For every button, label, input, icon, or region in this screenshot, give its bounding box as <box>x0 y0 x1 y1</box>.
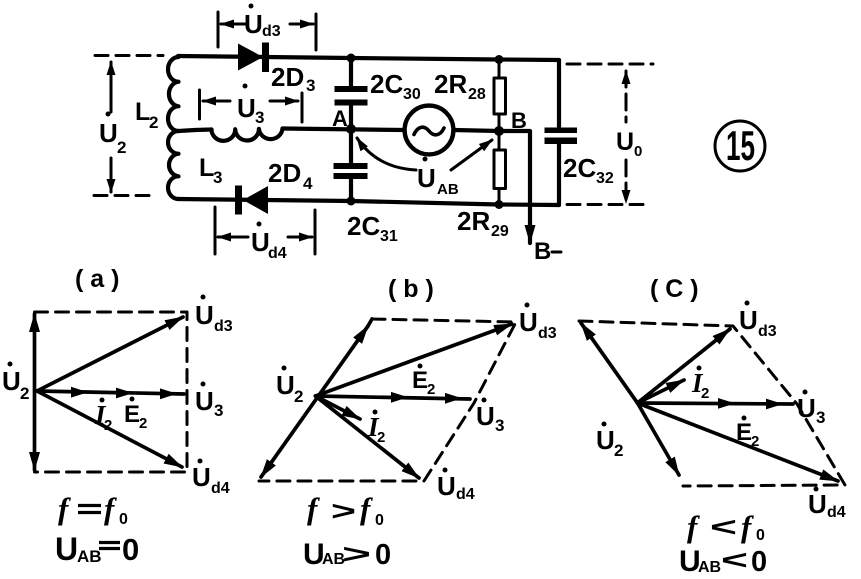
svg-text:AB: AB <box>698 559 721 576</box>
svg-text:2R: 2R <box>457 206 490 236</box>
svg-text:<: < <box>710 512 737 542</box>
capacitor 2C32 <box>545 60 614 205</box>
svg-text:B: B <box>534 238 551 265</box>
svg-text:U: U <box>739 305 758 335</box>
svg-text:AB: AB <box>77 547 102 566</box>
vector U2 (a) <box>2 314 35 470</box>
svg-text:0: 0 <box>119 511 128 528</box>
svg-text:U: U <box>99 118 118 148</box>
condition f&gt;f0 (b) <box>307 491 384 529</box>
condition UAB&lt;0 (c) <box>679 545 767 578</box>
svg-text:( C ): ( C ) <box>650 275 699 303</box>
svg-text:f: f <box>687 509 700 544</box>
svg-text:( b ): ( b ) <box>388 275 434 303</box>
label E2 (c) <box>736 416 759 451</box>
svg-text:E: E <box>124 401 140 428</box>
svg-text:3: 3 <box>816 408 825 427</box>
svg-text:E: E <box>412 367 428 394</box>
svg-text:f: f <box>360 491 373 526</box>
svg-text:d3: d3 <box>538 325 557 342</box>
vector U3 line (c) <box>638 390 826 428</box>
svg-text:32: 32 <box>596 170 614 187</box>
svg-text:2D: 2D <box>271 62 304 92</box>
svg-text:0: 0 <box>634 143 642 160</box>
vector U3 with I2 E2 arrows (a) <box>37 382 223 421</box>
svg-text:d4: d4 <box>456 486 475 503</box>
junction top of 2R28 <box>495 55 504 64</box>
dashed parallelogram (c) <box>579 321 845 486</box>
inductor L2 <box>135 57 179 199</box>
vector I2 (c) <box>638 366 710 404</box>
svg-text:d4: d4 <box>211 480 230 497</box>
diode 2D4 <box>235 158 313 215</box>
svg-text:U: U <box>596 425 615 455</box>
resistor 2R29 <box>457 131 509 240</box>
inductor L3 <box>179 129 283 188</box>
svg-text:3: 3 <box>255 108 264 127</box>
phasor diagram (c) title <box>650 275 699 303</box>
svg-text:U: U <box>519 307 538 337</box>
wire top rail <box>178 56 559 60</box>
dimension Ud4 bottom <box>215 207 315 262</box>
svg-text:0: 0 <box>122 532 139 567</box>
svg-text:AB: AB <box>437 181 459 198</box>
svg-text:U: U <box>195 300 214 330</box>
svg-text:f: f <box>58 491 71 526</box>
svg-text:d4: d4 <box>827 504 846 521</box>
svg-text:U: U <box>276 370 295 400</box>
svg-text:2: 2 <box>149 113 158 132</box>
svg-text:0: 0 <box>756 527 765 544</box>
svg-text:29: 29 <box>491 223 509 240</box>
dimension Ud3 top <box>218 4 316 51</box>
svg-text:U: U <box>251 227 270 257</box>
svg-text:3: 3 <box>306 76 315 95</box>
vector E2 U3 line (b) <box>316 392 471 404</box>
svg-text:3: 3 <box>214 401 223 420</box>
figure number 15 <box>715 121 765 171</box>
label UAB with arrows to A and B <box>357 138 492 198</box>
condition f=f0 (a) <box>58 491 128 528</box>
svg-text:>: > <box>342 539 371 569</box>
svg-text:2C: 2C <box>370 69 403 99</box>
dimension U2 left <box>94 56 163 196</box>
resistor 2R28 <box>434 60 506 132</box>
svg-text:U: U <box>244 9 263 39</box>
vector Ud3 (c) <box>638 301 777 404</box>
svg-text:( a ): ( a ) <box>75 265 119 293</box>
junction bottom of 2C31 <box>347 197 356 206</box>
dimension U3 middle <box>200 84 303 128</box>
svg-text:U: U <box>237 93 256 123</box>
svg-text:2: 2 <box>427 381 435 398</box>
svg-text:U: U <box>808 489 827 519</box>
vector Ud4 (b) <box>316 396 475 503</box>
svg-text:A: A <box>332 106 348 131</box>
vector U2 double (b) <box>261 319 372 477</box>
condition UAB=0 (a) <box>55 531 139 567</box>
svg-text:U: U <box>55 531 78 567</box>
svg-text:U: U <box>195 386 214 416</box>
svg-text:2: 2 <box>20 384 29 403</box>
svg-text:30: 30 <box>403 86 421 103</box>
AC source U1 <box>405 106 454 155</box>
vector Ud4 (a) <box>37 391 230 497</box>
svg-text:f: f <box>104 491 117 526</box>
wire middle rail (tap to A to source to B) <box>283 129 500 132</box>
svg-text:U: U <box>437 471 456 501</box>
svg-text:0: 0 <box>751 546 767 578</box>
svg-text:f: f <box>741 509 754 544</box>
label E2 (a) <box>124 397 147 433</box>
svg-text:L: L <box>199 154 214 182</box>
svg-text:2: 2 <box>294 387 303 406</box>
condition f&lt;f0 (c) <box>687 509 765 544</box>
label I2 (a) <box>94 398 112 435</box>
svg-text:U: U <box>2 366 21 396</box>
phasor diagram (a) title <box>75 265 119 293</box>
dashed parallelogram (b) <box>259 319 516 481</box>
svg-text:3: 3 <box>213 168 222 187</box>
svg-text:U: U <box>476 401 495 431</box>
node A <box>332 106 356 134</box>
dashed construction rectangle (a) <box>35 312 188 472</box>
svg-text:2: 2 <box>117 138 126 157</box>
svg-text:2C: 2C <box>347 211 380 241</box>
svg-text:>: > <box>331 496 356 526</box>
svg-text:2D: 2D <box>268 158 301 188</box>
svg-text:<: < <box>721 545 748 575</box>
svg-text:2: 2 <box>614 441 623 460</box>
svg-text:L: L <box>135 98 150 126</box>
vector Ud3 (a) <box>37 295 233 392</box>
vector Ud4 (c) <box>638 403 846 521</box>
diode 2D3 <box>238 43 315 96</box>
svg-text:f: f <box>307 491 320 526</box>
junction top of 2C30 <box>347 54 356 63</box>
svg-text:2C: 2C <box>563 153 596 183</box>
vector U2 double (c) <box>581 323 679 475</box>
label E2 (b) <box>412 364 435 399</box>
node B <box>494 108 527 136</box>
svg-text:d4: d4 <box>268 245 287 262</box>
svg-text:2: 2 <box>139 415 147 432</box>
label U3 (b) <box>476 398 504 436</box>
capacitor 2C30 <box>335 58 421 129</box>
svg-text:d3: d3 <box>758 323 777 340</box>
vector I2 (b) <box>316 396 386 446</box>
vector Ud3 (b) <box>316 303 557 397</box>
svg-text:31: 31 <box>380 228 398 245</box>
junction bottom of 2R29 <box>495 200 504 209</box>
svg-text:0: 0 <box>375 512 384 529</box>
wire bottom rail <box>178 199 559 205</box>
svg-text:2: 2 <box>701 385 709 402</box>
condition UAB&gt;0 (b) <box>303 538 391 571</box>
wire B- output <box>499 131 561 265</box>
svg-text:2R: 2R <box>434 69 467 99</box>
svg-text:3: 3 <box>495 416 504 435</box>
svg-text:U: U <box>417 163 436 193</box>
phasor diagram (b) title <box>388 275 434 303</box>
svg-text:U: U <box>797 393 816 423</box>
svg-text:d3: d3 <box>214 318 233 335</box>
capacitor 2C31 <box>334 129 398 245</box>
svg-text:28: 28 <box>468 86 486 103</box>
svg-text:15: 15 <box>726 122 755 169</box>
svg-text:U: U <box>616 128 634 156</box>
svg-text:4: 4 <box>303 174 313 193</box>
svg-text:0: 0 <box>375 539 391 571</box>
dimension U0 right <box>567 64 653 205</box>
svg-text:d3: d3 <box>262 23 281 40</box>
svg-text:U: U <box>192 462 211 492</box>
